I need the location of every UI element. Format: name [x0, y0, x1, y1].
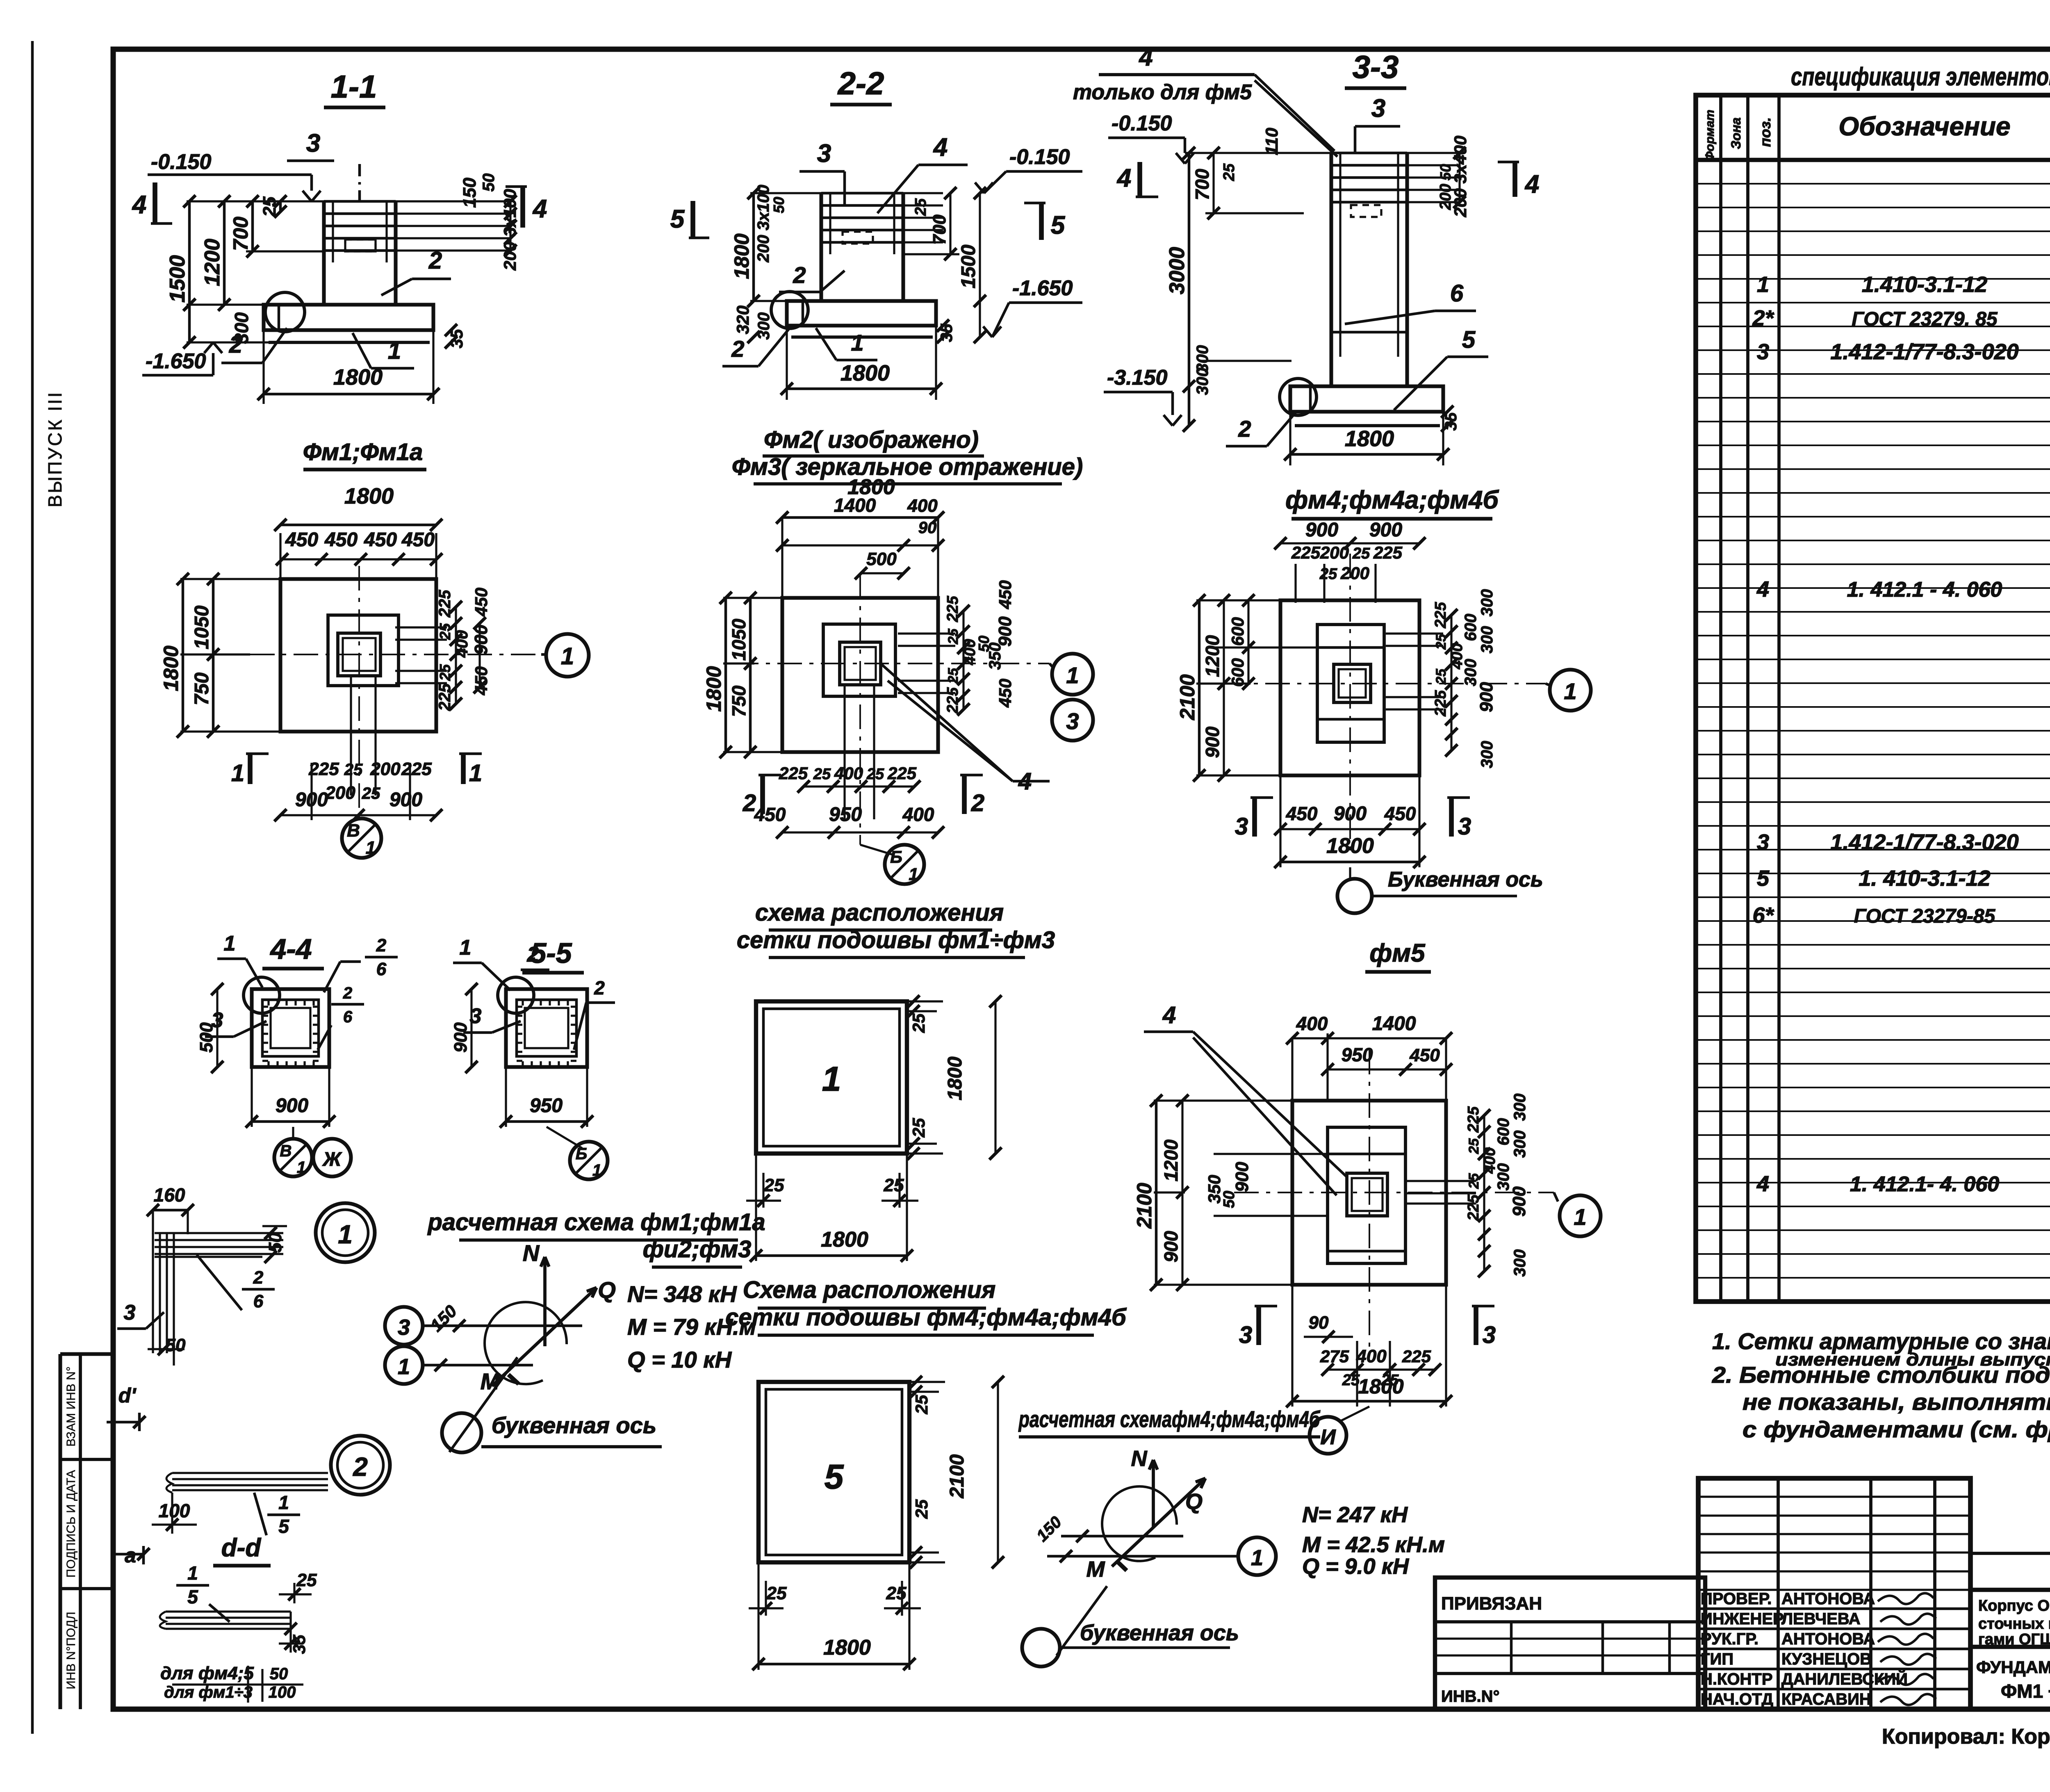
svg-text:2: 2: [343, 984, 352, 1002]
plan FM2 axis circles 1 and 3: [1052, 654, 1093, 695]
plan FM2 anchor verticals: [843, 685, 845, 819]
svg-text:25: 25: [1221, 163, 1238, 181]
svg-text:И: И: [1320, 1425, 1336, 1449]
plan FM1 center lines: [207, 654, 541, 655]
svg-text:Q: Q: [598, 1277, 616, 1303]
svg-text:25: 25: [945, 628, 961, 645]
privyazan box: [1435, 1578, 1705, 1709]
svg-text:буквенная ось: буквенная ось: [1080, 1621, 1239, 1645]
svg-text:ВЗАМ ИНВ N°: ВЗАМ ИНВ N°: [64, 1366, 78, 1447]
section 2-2 right dims: [979, 193, 981, 337]
svg-text:2: 2: [1238, 416, 1251, 442]
svg-text:5: 5: [670, 205, 685, 233]
section 1-1 hatch extension lines to right dims: [396, 200, 510, 202]
svg-text:700: 700: [929, 214, 950, 245]
svg-text:ИНВ.N°: ИНВ.N°: [1441, 1687, 1500, 1705]
svg-text:25: 25: [912, 198, 929, 216]
plan FM1 column small square: [338, 633, 380, 676]
svg-text:-1.650: -1.650: [1012, 276, 1073, 300]
scheme 1 N arrow: [543, 1257, 547, 1346]
svg-text:1400: 1400: [1372, 1013, 1416, 1035]
section 5-5 corner circle: [498, 977, 534, 1013]
section 4-4 axis circles В/1 and Ж: [274, 1139, 312, 1176]
plan FM5 axis circle И: [1310, 1417, 1346, 1454]
svg-text:расчетная схемафм4;фм4а;фм4б: расчетная схемафм4;фм4а;фм4б: [1018, 1406, 1321, 1432]
svg-text:1. 412.1 - 4. 060: 1. 412.1 - 4. 060: [1847, 578, 2002, 602]
svg-text:300: 300: [1478, 589, 1496, 617]
plan FM2 middle square: [823, 624, 895, 696]
svg-text:1: 1: [1251, 1546, 1263, 1570]
section 2-2 base slab: [787, 301, 936, 326]
scheme 2 axis lines: [1061, 1535, 1183, 1538]
svg-text:25: 25: [909, 1013, 928, 1033]
svg-text:N= 247 кН: N= 247 кН: [1302, 1502, 1408, 1527]
detail circle 2 double: [331, 1436, 390, 1495]
svg-text:ФМ1 ÷ ФМ5.: ФМ1 ÷ ФМ5.: [2001, 1680, 2050, 1702]
svg-text:4: 4: [132, 191, 146, 219]
svg-text:Фм1;Фм1а: Фм1;Фм1а: [303, 439, 423, 465]
svg-text:900: 900: [1334, 803, 1367, 825]
svg-text:2: 2: [743, 790, 756, 816]
svg-text:200: 200: [370, 759, 401, 779]
svg-text:90: 90: [1309, 1313, 1329, 1333]
svg-text:РУК.ГР.: РУК.ГР.: [1701, 1630, 1758, 1648]
svg-text:ПРИВЯЗАН: ПРИВЯЗАН: [1441, 1594, 1542, 1614]
svg-text:25: 25: [437, 623, 453, 640]
svg-text:1: 1: [388, 337, 401, 364]
svg-text:200: 200: [325, 783, 355, 803]
svg-text:2: 2: [229, 331, 242, 358]
scheme 2 moment circle: [1102, 1486, 1177, 1561]
plan FM5 axis circle 1: [1560, 1195, 1601, 1236]
plan FM2 column small square: [840, 642, 881, 685]
svg-text:ПРОВЕР.: ПРОВЕР.: [1701, 1590, 1772, 1608]
svg-text:450: 450: [1409, 1045, 1440, 1065]
svg-text:1: 1: [398, 1354, 410, 1379]
svg-text:90: 90: [918, 519, 937, 537]
svg-text:1200: 1200: [1202, 635, 1223, 677]
svg-text:N= 348 кН: N= 348 кН: [627, 1281, 737, 1307]
scheme 1 axis lines: [423, 1325, 582, 1327]
svg-text:450: 450: [471, 666, 491, 695]
svg-text:450: 450: [401, 529, 435, 551]
svg-text:25: 25: [1352, 545, 1370, 562]
schema square mesh 1: [756, 1001, 907, 1154]
svg-text:Q: Q: [1185, 1489, 1203, 1514]
svg-text:3: 3: [1483, 1322, 1496, 1348]
svg-text:950: 950: [829, 804, 862, 825]
svg-text:1. 410-3.1-12: 1. 410-3.1-12: [1859, 866, 1990, 891]
plan FM4 section mark 3 left: [1252, 798, 1257, 837]
svg-text:450: 450: [995, 679, 1015, 708]
section 4-4 corner circle: [244, 977, 280, 1013]
svg-text:225: 225: [401, 759, 432, 779]
svg-text:450: 450: [1286, 803, 1318, 824]
svg-text:Копировал: Коршунова: Копировал: Коршунова: [1882, 1725, 2050, 1749]
svg-text:900: 900: [1232, 1162, 1252, 1192]
svg-text:25: 25: [909, 1118, 928, 1138]
svg-text:-1.650: -1.650: [146, 349, 206, 373]
svg-text:900: 900: [451, 1022, 471, 1053]
svg-text:400: 400: [1296, 1013, 1328, 1034]
svg-text:300: 300: [1511, 1094, 1529, 1121]
svg-text:5: 5: [1462, 326, 1476, 353]
svg-text:200 3x100: 200 3x100: [754, 185, 772, 262]
svg-text:-3.150: -3.150: [1107, 366, 1168, 390]
plan FM2 section mark 2 right: [962, 775, 967, 814]
plan FM2 left dims: [724, 598, 727, 752]
svg-text:2: 2: [253, 1268, 264, 1288]
plan FM4 axis circle 1: [1550, 670, 1591, 711]
svg-text:900: 900: [1160, 1231, 1182, 1262]
svg-text:160: 160: [154, 1184, 185, 1206]
svg-text:Q = 10 кН: Q = 10 кН: [627, 1347, 732, 1372]
plan FM2 right dim cluster: [962, 611, 964, 709]
svg-text:1800: 1800: [1326, 834, 1374, 858]
svg-text:только для фм5: только для фм5: [1073, 80, 1252, 104]
plan FM5 section mark 3 left: [1256, 1306, 1261, 1345]
section 1-1 section mark 4 left: [153, 182, 157, 223]
plan FM1 axis circle 1: [546, 634, 589, 677]
scheme 1 axis circles 3 and 1: [385, 1307, 423, 1345]
plan FM2 section mark 2 left: [760, 775, 765, 814]
svg-text:Фм3( зеркальное отражение): Фм3( зеркальное отражение): [732, 454, 1083, 480]
svg-text:450: 450: [285, 529, 318, 551]
svg-text:6: 6: [1450, 280, 1464, 307]
section 2-2 section mark 5 right: [1039, 203, 1044, 240]
svg-text:2: 2: [971, 790, 984, 816]
plan FM1 outer square: [280, 579, 436, 732]
svg-text:950: 950: [1342, 1044, 1373, 1065]
svg-text:1800: 1800: [1358, 1375, 1403, 1398]
section 4-4 left dim 900: [216, 989, 218, 1067]
svg-text:Фм2( изображено): Фм2( изображено): [764, 426, 979, 453]
svg-text:5: 5: [825, 1457, 844, 1496]
svg-text:НАЧ.ОТД: НАЧ.ОТД: [1701, 1690, 1773, 1708]
svg-text:6*: 6*: [1752, 903, 1774, 928]
svg-text:450: 450: [324, 529, 358, 551]
svg-text:25: 25: [1433, 634, 1449, 650]
svg-text:фм4;фм4а;фм4б: фм4;фм4а;фм4б: [1285, 486, 1499, 514]
svg-text:1-1: 1-1: [331, 68, 377, 105]
section 2-2 left dims: [752, 193, 755, 301]
scheme 2 N arrow: [1152, 1460, 1155, 1527]
plan FM4 section mark 3 right: [1449, 798, 1454, 837]
svg-text:6: 6: [343, 1008, 353, 1026]
svg-text:2: 2: [527, 943, 539, 967]
svg-text:1: 1: [851, 330, 863, 356]
svg-text:4: 4: [1116, 164, 1131, 192]
plan FM4 outer rect: [1280, 600, 1419, 775]
svg-text:225: 225: [1402, 1347, 1431, 1366]
svg-text:N: N: [1131, 1446, 1148, 1471]
svg-text:3: 3: [817, 139, 831, 168]
svg-text:M = 42.5 кН.м: M = 42.5 кН.м: [1302, 1532, 1445, 1557]
svg-text:300: 300: [1511, 1131, 1529, 1158]
svg-text:В: В: [280, 1142, 292, 1160]
svg-text:1800: 1800: [823, 1636, 871, 1660]
plan FM4 left dims: [1198, 600, 1201, 775]
svg-text:5: 5: [1757, 866, 1770, 891]
svg-text:1: 1: [460, 936, 471, 960]
svg-text:ПОДПИСЬ И ДАТА: ПОДПИСЬ И ДАТА: [64, 1470, 78, 1578]
svg-text:-0.150: -0.150: [151, 150, 212, 174]
svg-text:1500: 1500: [958, 244, 979, 288]
svg-text:400: 400: [907, 496, 938, 516]
svg-text:225: 225: [887, 764, 917, 783]
svg-text:25: 25: [866, 766, 884, 783]
svg-text:1800: 1800: [730, 233, 753, 279]
plan FM1 axis circle В/1: [342, 818, 381, 858]
section 5-5 square: [506, 989, 587, 1067]
svg-text:M = 79 кН.м: M = 79 кН.м: [627, 1314, 756, 1340]
svg-text:25: 25: [912, 1395, 931, 1414]
section 1-1 slab detail circle: [265, 292, 305, 332]
svg-text:1: 1: [561, 643, 574, 670]
svg-text:1800: 1800: [944, 1056, 966, 1100]
svg-text:ГОСТ 23279-85: ГОСТ 23279-85: [1854, 905, 1996, 927]
svg-text:Б: Б: [890, 847, 902, 866]
svg-text:25: 25: [1433, 668, 1449, 685]
section 3-3 bottom dim 1800: [1289, 412, 1291, 465]
section 3-3 section mark 4 left: [1137, 162, 1142, 197]
svg-text:600: 600: [1462, 614, 1480, 641]
svg-text:2. Бетонные столбики под фун: 2. Бетонные столбики под фундаментные ба…: [1712, 1362, 2050, 1388]
svg-text:ЛЕВЧЕВА: ЛЕВЧЕВА: [1781, 1610, 1861, 1628]
svg-text:275: 275: [1320, 1347, 1349, 1366]
plan FM5 column small square: [1347, 1173, 1387, 1216]
svg-text:2100: 2100: [946, 1454, 968, 1498]
title block staff grid: [1698, 1478, 1970, 1709]
svg-text:1: 1: [366, 838, 376, 858]
svg-text:400: 400: [1356, 1346, 1387, 1366]
plan FM1 anchor verticals: [350, 676, 352, 796]
svg-text:1: 1: [278, 1492, 289, 1513]
section 1-1 right dimension lines: [509, 201, 511, 251]
svg-text:3: 3: [1235, 813, 1248, 840]
svg-text:300: 300: [1478, 626, 1496, 654]
svg-text:АНТОНОВА: АНТОНОВА: [1781, 1590, 1875, 1608]
svg-text:900: 900: [1476, 682, 1496, 712]
svg-text:25: 25: [260, 196, 280, 217]
svg-text:поз.: поз.: [1757, 117, 1774, 147]
svg-text:1800: 1800: [821, 1228, 868, 1252]
svg-text:Н.КОНТР: Н.КОНТР: [1701, 1670, 1773, 1688]
plan FM5 center lines: [1234, 1192, 1554, 1193]
svg-text:750: 750: [191, 673, 213, 705]
svg-text:450: 450: [1384, 803, 1416, 824]
svg-text:сетки подошвы фм4;фм4а;фм4б: сетки подошвы фм4;фм4а;фм4б: [725, 1304, 1127, 1331]
svg-text:6: 6: [376, 959, 387, 979]
svg-text:1. 412.1- 4. 060: 1. 412.1- 4. 060: [1850, 1172, 1999, 1196]
svg-text:КРАСАВИН: КРАСАВИН: [1781, 1690, 1871, 1708]
svg-text:700: 700: [229, 217, 252, 251]
section 3-3 base slab: [1290, 386, 1443, 412]
section 1-1 section mark 4 right: [520, 187, 525, 228]
svg-text:2: 2: [376, 935, 387, 955]
svg-text:225: 225: [1373, 543, 1403, 562]
sheet outer thin border line: [31, 41, 34, 1734]
upper bar detail for d-d: [172, 1472, 328, 1474]
plan FM5 outer rect: [1292, 1101, 1446, 1285]
svg-text:1: 1: [231, 760, 244, 787]
svg-text:450: 450: [364, 529, 397, 551]
svg-text:200: 200: [1320, 543, 1349, 562]
svg-text:ИНЖЕНЕР: ИНЖЕНЕР: [1701, 1610, 1784, 1628]
svg-text:с фундаментами (см. фрагменты: с фундаментами (см. фрагменты 1,2 на лис…: [1742, 1416, 2050, 1442]
svg-text:не показаны, выполнять их след: не показаны, выполнять их следует в одно…: [1742, 1389, 2050, 1415]
svg-text:225: 225: [436, 590, 454, 618]
svg-text:1.412-1/77-8.3-020: 1.412-1/77-8.3-020: [1830, 830, 2018, 855]
plan FM5 left dims: [1155, 1101, 1158, 1285]
svg-text:200: 200: [1340, 563, 1369, 583]
plan FM1 section mark 1 bottom-left: [248, 754, 253, 784]
svg-text:300: 300: [1478, 741, 1496, 768]
svg-text:400: 400: [902, 804, 934, 825]
svg-text:150: 150: [460, 178, 480, 208]
svg-text:750: 750: [728, 685, 749, 717]
scheme 2 Q arrow: [1112, 1478, 1205, 1566]
svg-text:100: 100: [269, 1683, 296, 1701]
svg-text:50: 50: [270, 1665, 288, 1683]
spec table outer frame: [1696, 95, 2050, 1302]
svg-text:гами ОГШ-1001 к-01: гами ОГШ-1001 к-01: [1978, 1631, 2050, 1648]
svg-text:3-3: 3-3: [1353, 49, 1399, 85]
svg-text:1: 1: [338, 1220, 353, 1249]
section 2-2 section mark 5 left: [690, 201, 695, 238]
svg-text:N: N: [523, 1240, 540, 1266]
svg-text:4: 4: [933, 133, 948, 162]
svg-text:-0.150: -0.150: [1009, 145, 1070, 169]
svg-text:900: 900: [276, 1095, 308, 1117]
plan FM1 section mark 1 bottom-right: [461, 754, 466, 784]
svg-text:2: 2: [793, 262, 806, 288]
svg-text:2*: 2*: [1752, 306, 1774, 331]
svg-text:5: 5: [1051, 211, 1066, 239]
svg-text:3: 3: [1458, 813, 1471, 840]
svg-text:Обозначение: Обозначение: [1838, 112, 2010, 141]
svg-text:1: 1: [1574, 1204, 1586, 1230]
svg-text:225: 225: [1465, 1194, 1482, 1221]
svg-text:для фм1÷3: для фм1÷3: [164, 1683, 253, 1701]
svg-text:3: 3: [1239, 1322, 1252, 1348]
section 5-5 mesh ticks: [522, 1000, 524, 1005]
svg-text:1050: 1050: [191, 605, 213, 649]
scheme 1 moment circle: [485, 1302, 567, 1384]
left margin stamp column: [58, 1354, 62, 1709]
svg-text:50: 50: [480, 173, 498, 192]
svg-text:1800: 1800: [333, 365, 383, 390]
svg-text:225: 225: [1465, 1106, 1482, 1133]
svg-text:d': d': [118, 1384, 137, 1407]
svg-text:1.412-1/77-8.3-020: 1.412-1/77-8.3-020: [1830, 340, 2018, 364]
svg-text:-0.150: -0.150: [1112, 112, 1172, 135]
section 3-3 left dims: [1188, 153, 1191, 426]
svg-text:5: 5: [278, 1516, 289, 1537]
svg-text:700: 700: [1191, 169, 1213, 200]
svg-text:500: 500: [196, 1022, 216, 1053]
svg-text:25: 25: [884, 1175, 904, 1195]
svg-text:25: 25: [886, 1583, 907, 1603]
scheme 2 letter axis: [1057, 1586, 1107, 1655]
svg-text:для фм4;5: для фм4;5: [160, 1663, 254, 1683]
svg-text:4: 4: [1162, 1002, 1176, 1028]
svg-text:4: 4: [532, 195, 547, 223]
svg-text:схема расположения: схема расположения: [755, 899, 1004, 926]
svg-text:1.410-3.1-12: 1.410-3.1-12: [1862, 272, 1987, 297]
svg-text:25: 25: [764, 1175, 784, 1195]
plan FM1 right dim cluster: [455, 607, 457, 704]
section 1-1 embedded dashed box: [345, 239, 376, 251]
svg-text:3: 3: [1757, 340, 1769, 364]
svg-text:4: 4: [1756, 1172, 1769, 1196]
svg-text:1050: 1050: [728, 618, 749, 661]
svg-text:1: 1: [592, 1161, 601, 1179]
svg-text:АНТОНОВА: АНТОНОВА: [1781, 1630, 1875, 1648]
svg-text:4: 4: [1139, 43, 1153, 71]
svg-text:450: 450: [471, 588, 491, 617]
svg-text:2: 2: [353, 1452, 368, 1482]
svg-text:900: 900: [1509, 1186, 1529, 1217]
detail circle 1 double: [316, 1203, 375, 1262]
svg-text:225: 225: [1432, 602, 1449, 628]
plan FM1 middle square: [328, 615, 399, 686]
svg-text:4-4: 4-4: [269, 933, 312, 965]
svg-text:25: 25: [437, 664, 453, 681]
svg-text:d-d: d-d: [221, 1534, 262, 1562]
plan FM4 right dim cluster: [1450, 615, 1452, 750]
svg-text:Ж: Ж: [322, 1149, 342, 1170]
section 1-1 bottom dim 1800: [262, 330, 264, 404]
svg-text:1400: 1400: [834, 495, 876, 516]
section 5-5 axis circle Б/1: [570, 1142, 608, 1179]
svg-text:Схема расположения: Схема расположения: [743, 1277, 996, 1303]
svg-text:ДАНИЛЕВСКИЙ: ДАНИЛЕВСКИЙ: [1781, 1669, 1908, 1688]
svg-text:2-2: 2-2: [837, 65, 884, 101]
section 1-1 column with mesh hatch: [322, 201, 326, 305]
svg-text:900: 900: [1202, 726, 1223, 758]
svg-text:25: 25: [912, 1499, 931, 1519]
svg-text:450: 450: [754, 804, 786, 825]
corner detail 1 vertical mesh bars: [152, 1233, 154, 1353]
svg-text:ФУНДАМЕНТЫ МОНОЛИТНЫЕ: ФУНДАМЕНТЫ МОНОЛИТНЫЕ: [1976, 1657, 2050, 1677]
svg-text:1200: 1200: [200, 239, 224, 286]
svg-text:1800: 1800: [159, 645, 182, 691]
svg-text:400: 400: [453, 630, 471, 658]
svg-text:200: 200: [1437, 184, 1454, 210]
section 1-1 base slab: [264, 305, 433, 330]
svg-text:6: 6: [253, 1291, 264, 1311]
svg-text:300: 300: [1194, 368, 1212, 395]
svg-text:225: 225: [944, 687, 961, 714]
section 3-3 section mark 4 right: [1512, 162, 1517, 197]
svg-text:2100: 2100: [1133, 1183, 1156, 1229]
svg-text:50: 50: [1221, 1191, 1238, 1208]
title block right area frame: [1968, 1478, 1973, 1709]
svg-text:4: 4: [1756, 577, 1769, 602]
svg-text:5: 5: [187, 1586, 198, 1607]
svg-text:4: 4: [1524, 170, 1539, 198]
plan FM1 left dims: [182, 579, 184, 732]
spec table column lines: [1719, 95, 1722, 1302]
svg-text:Корпус ОБЕЗВОЖИВАНИЯ осадка: Корпус ОБЕЗВОЖИВАНИЯ осадка: [1978, 1597, 2050, 1614]
svg-text:3: 3: [1757, 830, 1769, 855]
svg-text:2: 2: [594, 977, 605, 999]
svg-text:3: 3: [398, 1315, 410, 1340]
svg-text:1800: 1800: [702, 666, 725, 711]
spec table row lines: [1696, 183, 2050, 185]
svg-text:320: 320: [733, 306, 752, 334]
